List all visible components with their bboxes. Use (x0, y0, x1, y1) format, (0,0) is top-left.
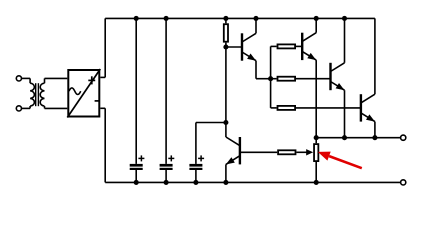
wire Q3 collector (344, 18, 346, 62)
junction dot R1 bottom / Q1 base node (223, 44, 228, 49)
capacitor C2 (165, 18, 167, 164)
wire rectifier + stub (100, 76, 105, 78)
wire Q4 collector (rail right end) (374, 18, 376, 94)
wire bottom rail (105, 181, 400, 183)
potentiometer wiper arrow (296, 151, 307, 153)
junction dot base node (268, 76, 273, 81)
transformer TR1 (29, 78, 31, 83)
junction dot pot top output line (314, 135, 319, 140)
junction dot C1 top rail (134, 16, 139, 21)
capacitor C3 (195, 123, 197, 164)
capacitor C1 (135, 18, 137, 164)
junction dot mid node (223, 120, 228, 125)
transistor Q2 (301, 33, 303, 60)
wire input top (22, 77, 31, 79)
junction dot C2 top rail (164, 16, 169, 21)
wire Q5 emitter down (225, 164, 227, 182)
input terminal P2 (16, 106, 21, 111)
wire Q3 emitter down (344, 90, 346, 138)
input terminal P1 (16, 76, 21, 81)
wire input bottom (22, 107, 31, 109)
resistor R3 (271, 78, 277, 80)
junction dot Q1 collector top rail (253, 16, 258, 21)
wire node down to Q5 collector (225, 47, 227, 137)
resistor R6 (278, 150, 295, 154)
junction dot R1 top rail (223, 16, 228, 21)
wire secondary bottom to rectifier (45, 107, 68, 109)
wire secondary top to rectifier (45, 77, 68, 79)
wire top rail (105, 17, 375, 19)
output terminal + (401, 135, 406, 140)
resistor R4 (271, 107, 277, 109)
wire C3 top to node (196, 122, 226, 124)
wire Q1 emitter down (255, 61, 257, 79)
wire Q1 collector (255, 18, 257, 33)
bridge rectifier B1 (68, 70, 99, 117)
junction dot Q3 collector top rail (342, 16, 347, 21)
junction dot C1 bottom rail (134, 180, 139, 185)
junction dot C3 bottom rail (193, 180, 198, 185)
junction dot Q4 emitter output line (372, 135, 377, 140)
resistor R2 (271, 45, 277, 47)
red annotation arrow (329, 156, 362, 168)
wire base-resistor node vertical (270, 46, 272, 108)
transistor Q4 (360, 94, 362, 121)
transistor Q3 (329, 63, 331, 90)
wire Q2 collector (315, 18, 317, 32)
potentiometer P1 body (315, 138, 317, 144)
junction dot pot bottom rail (314, 180, 319, 185)
junction dot Q3 emitter output line (342, 135, 347, 140)
output terminal - (401, 180, 406, 185)
wire output line (316, 137, 400, 139)
wire rectifier - stub (100, 107, 105, 109)
wire Q2 emitter down (315, 60, 317, 138)
junction dot Q2 collector top rail (314, 16, 319, 21)
wire left vertical (rectifier + to top rail) (104, 18, 106, 77)
resistor R1 (225, 18, 227, 23)
wire Q1 emitter to node (256, 78, 271, 80)
wire Q5 base (240, 151, 277, 153)
wire Q1 base (226, 46, 242, 48)
wire Q4 emitter down (374, 122, 376, 138)
wire left vertical (rectifier - to bottom rail) (104, 108, 106, 182)
transistor Q1 (241, 33, 243, 60)
junction dot Q5 emitter bottom rail (223, 180, 228, 185)
junction dot C2 bottom rail (164, 180, 169, 185)
transistor Q5 (239, 137, 241, 164)
